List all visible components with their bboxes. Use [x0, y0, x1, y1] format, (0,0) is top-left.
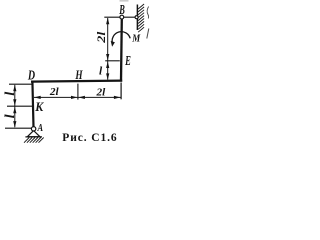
tick at H: [77, 84, 79, 100]
arrow down at A: [13, 121, 16, 128]
svg-text:A: A: [37, 123, 44, 134]
svg-text:Рис. С1.6: Рис. С1.6: [62, 132, 117, 144]
wire left vertical member D-A: [32, 81, 33, 127]
svg-text:l: l: [3, 114, 18, 118]
support base line: [25, 136, 42, 138]
tick at K level: [7, 105, 32, 107]
arrow down at corner: [106, 73, 109, 80]
moment M arc: [112, 32, 130, 44]
dimension 2l right side line: [107, 18, 109, 80]
arrow left at H: [78, 96, 85, 99]
wire right vertical member corner-B: [120, 19, 123, 82]
tick at E: [105, 60, 120, 62]
ground hatching at A: [24, 138, 44, 143]
svg-text:E: E: [124, 53, 130, 68]
bottom dimension line: [34, 96, 121, 98]
svg-text:H: H: [75, 67, 84, 82]
svg-text:2l: 2l: [49, 86, 60, 98]
left dimension line: [14, 85, 16, 127]
svg-text:K: K: [34, 99, 44, 114]
stray mark right edge lower: [147, 29, 149, 39]
moment M arrowhead: [111, 41, 115, 47]
arrow right at H: [71, 96, 78, 99]
svg-text:D: D: [27, 67, 35, 82]
extension line below corner: [120, 83, 122, 100]
wire link rod B to wall (and dim tick at B): [104, 16, 137, 18]
wall hatching: [138, 4, 144, 32]
tick at D level: [9, 83, 32, 85]
wall support at B: [136, 5, 138, 31]
arrow up below E: [106, 62, 109, 69]
svg-text:l: l: [3, 92, 18, 96]
tick at A level: [5, 127, 31, 129]
scan smudge top edge: [120, 0, 129, 2]
arrow right at corner: [114, 96, 121, 99]
svg-text:2l: 2l: [94, 31, 108, 44]
pin A: [31, 127, 35, 131]
svg-text:2l: 2l: [95, 86, 106, 98]
wire horizontal member D-corner: [31, 81, 122, 82]
arrow left at D member: [34, 96, 41, 99]
stray mark right edge upper: [147, 7, 148, 19]
pin B: [120, 15, 124, 19]
pinned support triangle at A: [27, 131, 40, 137]
svg-text:M: M: [131, 32, 141, 44]
svg-text:B: B: [119, 3, 125, 18]
arrow up at B: [106, 18, 109, 25]
arrow up below K: [13, 107, 16, 114]
arrow down at E: [106, 54, 109, 61]
arrow down at K: [13, 99, 16, 106]
pin at wall: [135, 16, 138, 19]
arrow up at D level: [13, 85, 16, 92]
